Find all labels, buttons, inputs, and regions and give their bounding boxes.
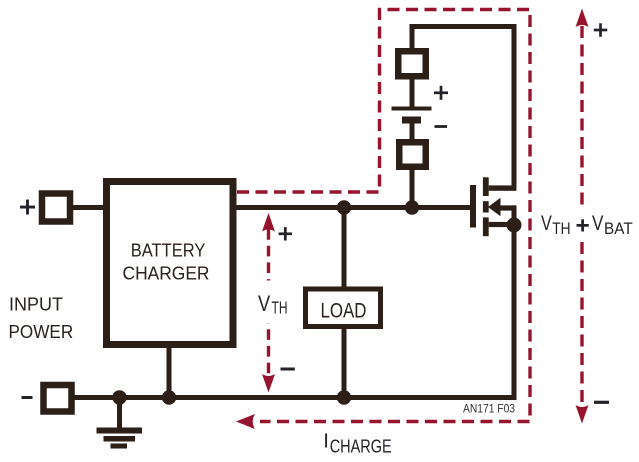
label + (vbat top) xyxy=(594,23,608,37)
arrowhead VTH up xyxy=(262,213,275,232)
junction dot source xyxy=(507,218,522,233)
junction dot charger return xyxy=(162,390,176,404)
label INPUT POWER xyxy=(9,293,74,342)
dashed charge loop xyxy=(237,10,530,422)
transistor Q1 body arrow xyxy=(488,198,501,216)
junction dot battery branch xyxy=(405,200,419,214)
svg-text:TH: TH xyxy=(272,297,288,317)
battery BT1 plate - xyxy=(402,117,421,124)
label + (input) xyxy=(20,200,35,215)
ground xyxy=(97,398,143,449)
label - (vbat bottom) xyxy=(594,401,609,404)
wire bottom rail xyxy=(73,395,517,400)
svg-text:V: V xyxy=(258,291,270,316)
label + (battery) xyxy=(434,86,448,100)
transistor Q1 drain wire xyxy=(489,185,517,190)
battery terminal block bottom xyxy=(399,142,426,167)
label - (vth) xyxy=(281,368,295,371)
wire J1 to charger xyxy=(72,205,106,210)
svg-text:POWER: POWER xyxy=(9,321,74,342)
transistor Q1 source wire xyxy=(489,222,509,227)
wire plate to block2 xyxy=(410,123,415,140)
junction dot load bottom xyxy=(337,390,351,404)
wire charger output (main rail) xyxy=(235,205,470,210)
svg-text:LOAD: LOAD xyxy=(321,300,367,323)
wire load top xyxy=(342,207,347,289)
label BATTERY CHARGER xyxy=(123,240,210,284)
junction dot load top xyxy=(337,200,351,214)
battery charger U1 xyxy=(107,182,234,345)
battery terminal block top xyxy=(398,51,426,76)
wire block2 to node xyxy=(410,169,415,207)
load box xyxy=(306,289,381,327)
svg-text:INPUT: INPUT xyxy=(9,293,63,314)
svg-text:V: V xyxy=(592,212,603,235)
label + (vth) xyxy=(279,227,292,240)
dashed VTH measure arrow xyxy=(267,229,270,379)
svg-text:CHARGER: CHARGER xyxy=(123,263,210,284)
transistor Q1 body wire xyxy=(499,205,517,226)
wire source to bottom rail xyxy=(512,225,517,397)
arrowhead VBAT up xyxy=(576,9,589,28)
battery BT1 plate + xyxy=(392,107,432,111)
svg-text:BATTERY: BATTERY xyxy=(131,240,206,261)
arrowhead ICHARGE (left) xyxy=(236,414,255,429)
dashed VBAT measure arrow xyxy=(580,26,583,405)
svg-text:CHARGE: CHARGE xyxy=(330,436,392,457)
label VTH xyxy=(250,281,292,324)
junction dot ground node xyxy=(112,390,126,404)
arrowhead VBAT down xyxy=(576,405,589,424)
label VTH + VBAT xyxy=(541,212,633,238)
wire battery branch top loop xyxy=(412,27,514,189)
label - (input) xyxy=(22,396,33,399)
wire block to plate xyxy=(410,78,415,108)
svg-text:BAT: BAT xyxy=(604,220,633,238)
svg-text:I: I xyxy=(323,430,329,453)
transistor Q1 gate bar xyxy=(470,185,476,228)
svg-text:V: V xyxy=(541,212,552,235)
label ICHARGE xyxy=(323,430,391,457)
svg-text:AN171 F03: AN171 F03 xyxy=(463,402,515,416)
wire charger bottom to rail xyxy=(167,346,172,396)
transistor Q1 channel bars xyxy=(483,177,489,236)
terminal block J2 (- input) xyxy=(44,385,72,412)
wire load bottom xyxy=(342,327,347,398)
arrowhead VTH down xyxy=(262,374,275,393)
label - (battery) xyxy=(435,125,448,128)
svg-text:TH: TH xyxy=(552,220,570,238)
terminal block J1 (+ input) xyxy=(42,194,70,222)
